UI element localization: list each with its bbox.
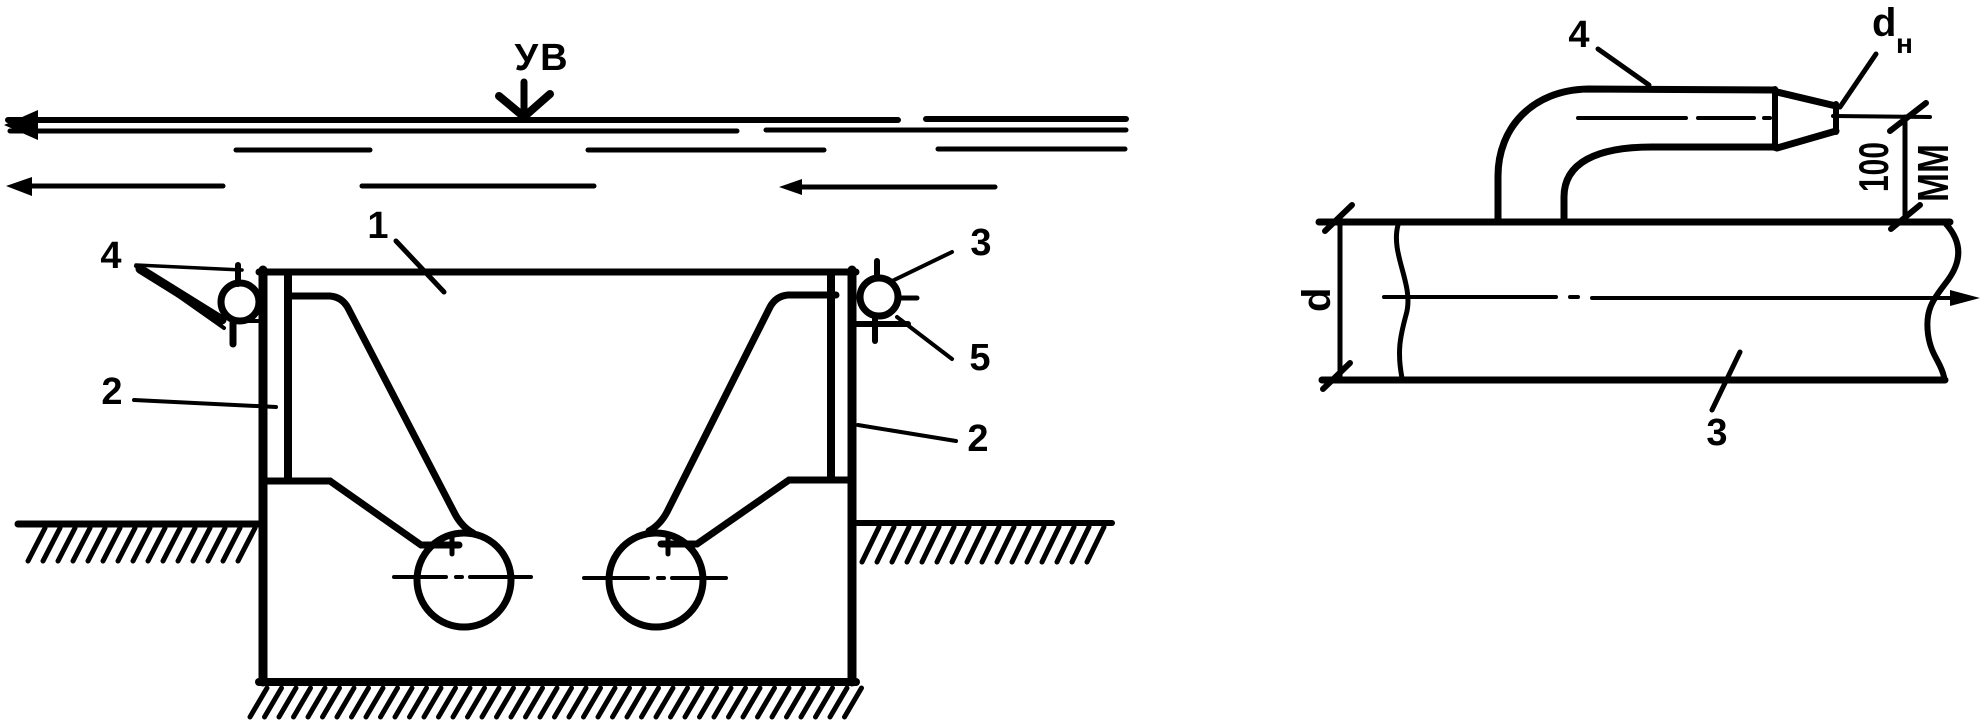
left float bottom tick	[230, 323, 237, 344]
leader for 2 right	[858, 425, 956, 441]
flow line row3 segment a with arrow	[26, 184, 223, 189]
leader for 5	[897, 317, 952, 359]
left pipe centerline	[394, 575, 531, 579]
water surface left arrow	[4, 110, 38, 140]
svg-text:2: 2	[101, 371, 122, 413]
YB down arrow	[521, 82, 528, 112]
pipe bottom line	[1322, 377, 1945, 384]
floor hatch	[250, 688, 862, 717]
svg-text:3: 3	[970, 222, 991, 264]
pipe centerline arrow	[1950, 290, 1980, 306]
right sheet-pile wall outer	[848, 270, 857, 682]
svg-text:5: 5	[969, 337, 990, 379]
right pipe centerline	[584, 576, 726, 580]
svg-text:ММ: ММ	[1909, 144, 1958, 202]
left float dash	[244, 319, 258, 323]
left pipe circle	[417, 533, 511, 627]
svg-text:4: 4	[1568, 14, 1589, 56]
riser outer wall	[1498, 89, 1775, 221]
svg-text:4: 4	[100, 235, 121, 277]
water surface lower line	[10, 130, 1126, 131]
leader wedge for 4	[136, 265, 242, 270]
leader for 3	[890, 252, 952, 282]
leader for 3 right	[1712, 352, 1740, 410]
nozzle cone top	[1777, 92, 1836, 106]
leader for 4 right	[1598, 49, 1649, 85]
flow line row2 segment b	[588, 148, 824, 153]
dimension d line	[1338, 222, 1343, 380]
dim d top slash	[1325, 205, 1352, 231]
pipe centerline	[1384, 297, 1956, 298]
ground line left	[18, 521, 262, 528]
ground hatch right	[862, 527, 1104, 562]
right float bottom bar	[852, 321, 908, 327]
left wall float circle	[221, 283, 259, 321]
pipe left break line	[1396, 225, 1408, 378]
svg-text:н: н	[1896, 28, 1913, 59]
right float top tick	[874, 261, 880, 277]
riser inner wall	[1564, 147, 1775, 221]
right wall float circle	[860, 278, 898, 316]
right sheet-pile wall inner	[827, 273, 835, 478]
nozzle cone bottom	[1777, 131, 1836, 148]
right float bottom tick	[872, 318, 878, 341]
extension line from tip	[1833, 116, 1930, 117]
svg-text:3: 3	[1706, 412, 1727, 454]
dimension 100 line	[1903, 117, 1908, 222]
flow line row2 segment c	[938, 147, 1125, 152]
left bench profile	[264, 481, 459, 545]
dim d bottom slash	[1323, 363, 1350, 389]
svg-text:d: d	[1295, 288, 1339, 312]
nozzle joint	[1772, 89, 1778, 148]
left anchor strut	[292, 296, 473, 533]
svg-text:d: d	[1872, 1, 1896, 45]
dim 100 bottom slash	[1891, 205, 1920, 229]
caisson top line	[259, 269, 856, 276]
left bench end tick	[450, 536, 455, 554]
right bench profile	[661, 480, 851, 544]
left float top tick	[235, 265, 241, 284]
leader for 1	[396, 241, 444, 292]
dim 100 top slash	[1890, 103, 1926, 131]
leader for 2 left	[134, 400, 276, 407]
ground line right	[853, 520, 1112, 526]
left sheet-pile wall outer	[259, 270, 268, 682]
flow line row2 segment a	[236, 148, 370, 153]
nozzle tip	[1833, 104, 1839, 132]
svg-text:УВ: УВ	[514, 37, 569, 79]
water surface upper line	[8, 119, 1126, 120]
flow line row3 segment b	[362, 184, 594, 189]
nozzle centerline	[1578, 116, 1770, 120]
svg-text:2: 2	[967, 418, 988, 460]
trench floor	[259, 678, 856, 686]
svg-text:100: 100	[1850, 142, 1897, 192]
leader for dn	[1840, 54, 1876, 107]
pipe top line	[1319, 219, 1950, 226]
flow line row3 segment c with arrow	[796, 185, 995, 190]
right bench end tick	[666, 536, 671, 554]
ground hatch left	[28, 528, 255, 561]
right float right tick	[898, 296, 917, 301]
left sheet-pile wall inner	[284, 273, 292, 478]
right anchor strut	[649, 295, 836, 531]
svg-text:1: 1	[367, 205, 388, 247]
pipe right break line	[1927, 224, 1958, 377]
right pipe circle	[609, 533, 703, 627]
